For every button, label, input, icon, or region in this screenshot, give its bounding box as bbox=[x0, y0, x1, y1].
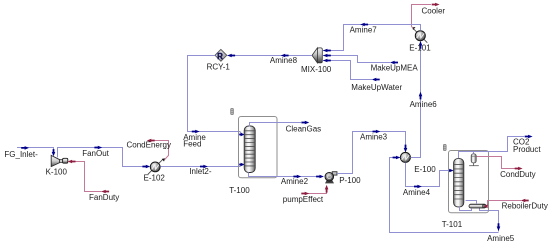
svg-text:CleanGas: CleanGas bbox=[286, 125, 322, 134]
column T-100 envelope bbox=[239, 117, 278, 178]
wire FanOut bbox=[58, 146, 151, 169]
svg-text:CondDuty: CondDuty bbox=[500, 170, 536, 179]
svg-text:MIX-100: MIX-100 bbox=[301, 65, 332, 74]
wire Amine Feed bbox=[188, 56, 245, 137]
svg-text:pumpEffect: pumpEffect bbox=[283, 195, 324, 204]
svg-text:Amine3: Amine3 bbox=[360, 133, 388, 142]
wire Amine7 bbox=[323, 23, 421, 53]
wire MakeUpWater bbox=[323, 59, 380, 82]
heat exchanger E-100 bbox=[400, 152, 410, 162]
heat exchanger E-102 bbox=[148, 158, 165, 174]
wire condenser stub bbox=[473, 152, 475, 154]
mixer MIX-100 bbox=[312, 48, 322, 63]
svg-text:T-100: T-100 bbox=[229, 186, 250, 195]
svg-text:RCY-1: RCY-1 bbox=[207, 62, 231, 71]
compressor K-100 bbox=[51, 155, 68, 166]
svg-text:Cooler: Cooler bbox=[422, 6, 446, 15]
svg-text:MakeUpWater: MakeUpWater bbox=[351, 83, 402, 92]
svg-text:T-101: T-101 bbox=[442, 220, 463, 229]
wire CO2 Product bbox=[459, 135, 533, 159]
svg-text:FanDuty: FanDuty bbox=[89, 193, 119, 202]
svg-text:ReboilerDuty: ReboilerDuty bbox=[502, 201, 548, 210]
svg-text:MakeUpMEA: MakeUpMEA bbox=[371, 63, 419, 72]
column sub-flowsheet badge T-100 bbox=[231, 108, 234, 114]
svg-text:Amine5: Amine5 bbox=[487, 234, 515, 243]
svg-text:Amine8: Amine8 bbox=[270, 56, 298, 65]
svg-text:Feed: Feed bbox=[183, 139, 201, 148]
energy wire pumpEffect bbox=[301, 185, 328, 195]
heat exchanger E-101 bbox=[412, 27, 427, 43]
svg-text:Amine6: Amine6 bbox=[410, 100, 438, 109]
energy wire CondEnergy bbox=[147, 139, 169, 160]
svg-text:Product: Product bbox=[513, 145, 541, 154]
energy wire Cooler bbox=[412, 3, 440, 29]
wire Inlet2 bbox=[160, 163, 244, 169]
condenser drum T-101 bbox=[469, 154, 479, 166]
energy wire FanDuty bbox=[68, 160, 110, 194]
energy wire ReboilerDuty bbox=[484, 199, 529, 209]
svg-text:K-100: K-100 bbox=[46, 167, 68, 176]
wire MakeUpMEA bbox=[323, 54, 398, 65]
svg-text:FG_Inlet-: FG_Inlet- bbox=[4, 150, 38, 159]
svg-text:E-101: E-101 bbox=[409, 43, 431, 52]
wire reboiler feed bbox=[460, 207, 472, 211]
wire Amine4 bbox=[406, 163, 454, 189]
reboiler kettle T-101 bbox=[469, 204, 486, 208]
column sub-flowsheet badge T-101 bbox=[443, 144, 446, 150]
wire Amine8 bbox=[227, 54, 312, 58]
svg-text:E-102: E-102 bbox=[144, 174, 166, 183]
column T-101 vessel bbox=[454, 159, 464, 207]
svg-text:CondEnergy: CondEnergy bbox=[127, 141, 171, 150]
wire reboiler vapor return bbox=[466, 201, 477, 205]
recycle RCY-1 bbox=[215, 49, 227, 61]
wire Amine2 bbox=[249, 172, 324, 178]
column T-101 envelope bbox=[449, 151, 489, 213]
column T-100 vessel bbox=[244, 126, 255, 173]
wire Amine5 return bbox=[390, 156, 501, 233]
svg-text:FanOut: FanOut bbox=[82, 149, 109, 158]
svg-text:R: R bbox=[217, 52, 223, 61]
svg-text:P-100: P-100 bbox=[339, 176, 361, 185]
svg-text:Amine4: Amine4 bbox=[403, 188, 431, 197]
energy wire CondDuty bbox=[476, 157, 522, 171]
wire CleanGas bbox=[250, 121, 310, 127]
wire Amine6 bbox=[410, 41, 422, 158]
svg-text:Amine7: Amine7 bbox=[350, 25, 378, 34]
svg-text:Amine2: Amine2 bbox=[281, 177, 309, 186]
svg-text:E-100: E-100 bbox=[414, 165, 436, 174]
wire FG_Inlet bbox=[17, 146, 55, 156]
wire Amine3 bbox=[337, 130, 407, 174]
svg-text:Inlet2-: Inlet2- bbox=[189, 167, 212, 176]
pump P-100 bbox=[325, 172, 337, 184]
